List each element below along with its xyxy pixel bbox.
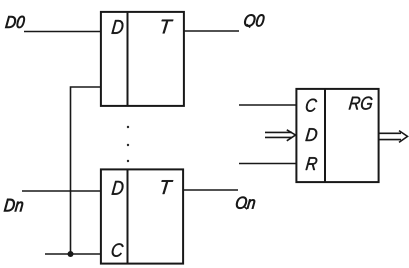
flip-flop U2 box (bottom D/T cell) [101, 169, 183, 264]
label Dn [4, 199, 23, 212]
pin label T (U1) [162, 20, 174, 34]
bus arrow into RG D input [265, 130, 296, 141]
pin label C (U2) [112, 243, 124, 256]
flip-flop U1 box (top D/T cell) [101, 12, 184, 107]
label Qn [236, 197, 255, 209]
wire R input to RG [239, 163, 296, 165]
wire Qn output [183, 189, 238, 191]
pin label R (U3) [306, 157, 318, 170]
wire C clock line (bottom) [45, 253, 101, 255]
pin label D (U2) [112, 181, 124, 195]
junction dot [68, 251, 74, 257]
ellipsis dots between U1 and U2 [127, 126, 129, 162]
wire D0 input [24, 31, 101, 33]
pin label C (U3) [306, 99, 317, 112]
label Q0 [244, 14, 264, 26]
bus arrow out of RG [379, 131, 408, 143]
wire Q0 output [184, 30, 239, 32]
pin label T (U2) [161, 180, 173, 194]
label D0 [5, 16, 25, 28]
pin label D (U1) [111, 20, 123, 34]
wire C input to RG [239, 104, 296, 106]
register U3 box (RG) [296, 89, 378, 183]
pin label D (U3) [305, 128, 317, 141]
wire Dn input [22, 190, 101, 192]
label RG (U3) [349, 97, 373, 110]
wire C branch to U1 [71, 87, 101, 254]
